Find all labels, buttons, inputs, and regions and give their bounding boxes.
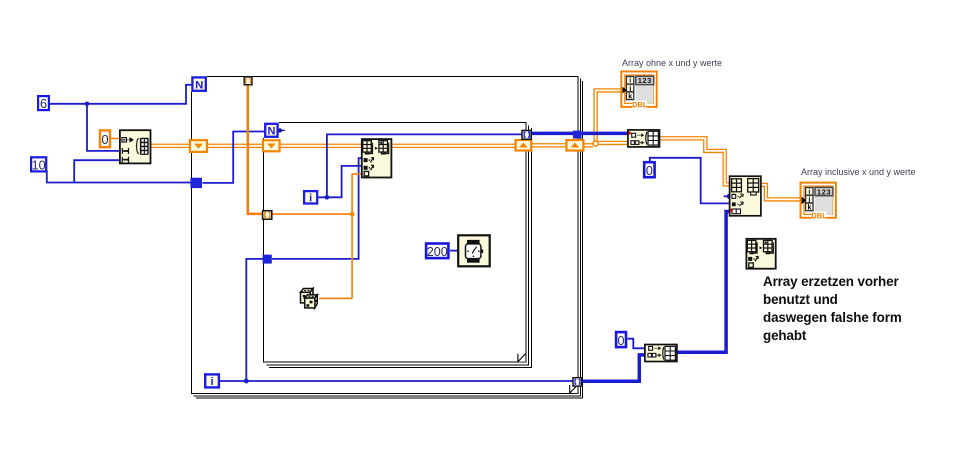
svg-text:0: 0 (101, 133, 108, 147)
svg-text:123: 123 (638, 76, 652, 85)
svg-text:6: 6 (40, 97, 47, 111)
svg-text:i: i (211, 376, 214, 388)
svg-text:i: i (309, 193, 312, 205)
svg-text:DBL: DBL (632, 100, 648, 109)
svg-text:N: N (195, 80, 203, 92)
svg-text:200: 200 (427, 245, 448, 259)
svg-text:DBL: DBL (811, 211, 827, 220)
svg-text:10: 10 (32, 158, 46, 172)
svg-text:123: 123 (817, 187, 831, 196)
svg-text:0: 0 (617, 334, 624, 348)
svg-text:N: N (268, 126, 276, 138)
svg-text:0: 0 (646, 164, 653, 178)
